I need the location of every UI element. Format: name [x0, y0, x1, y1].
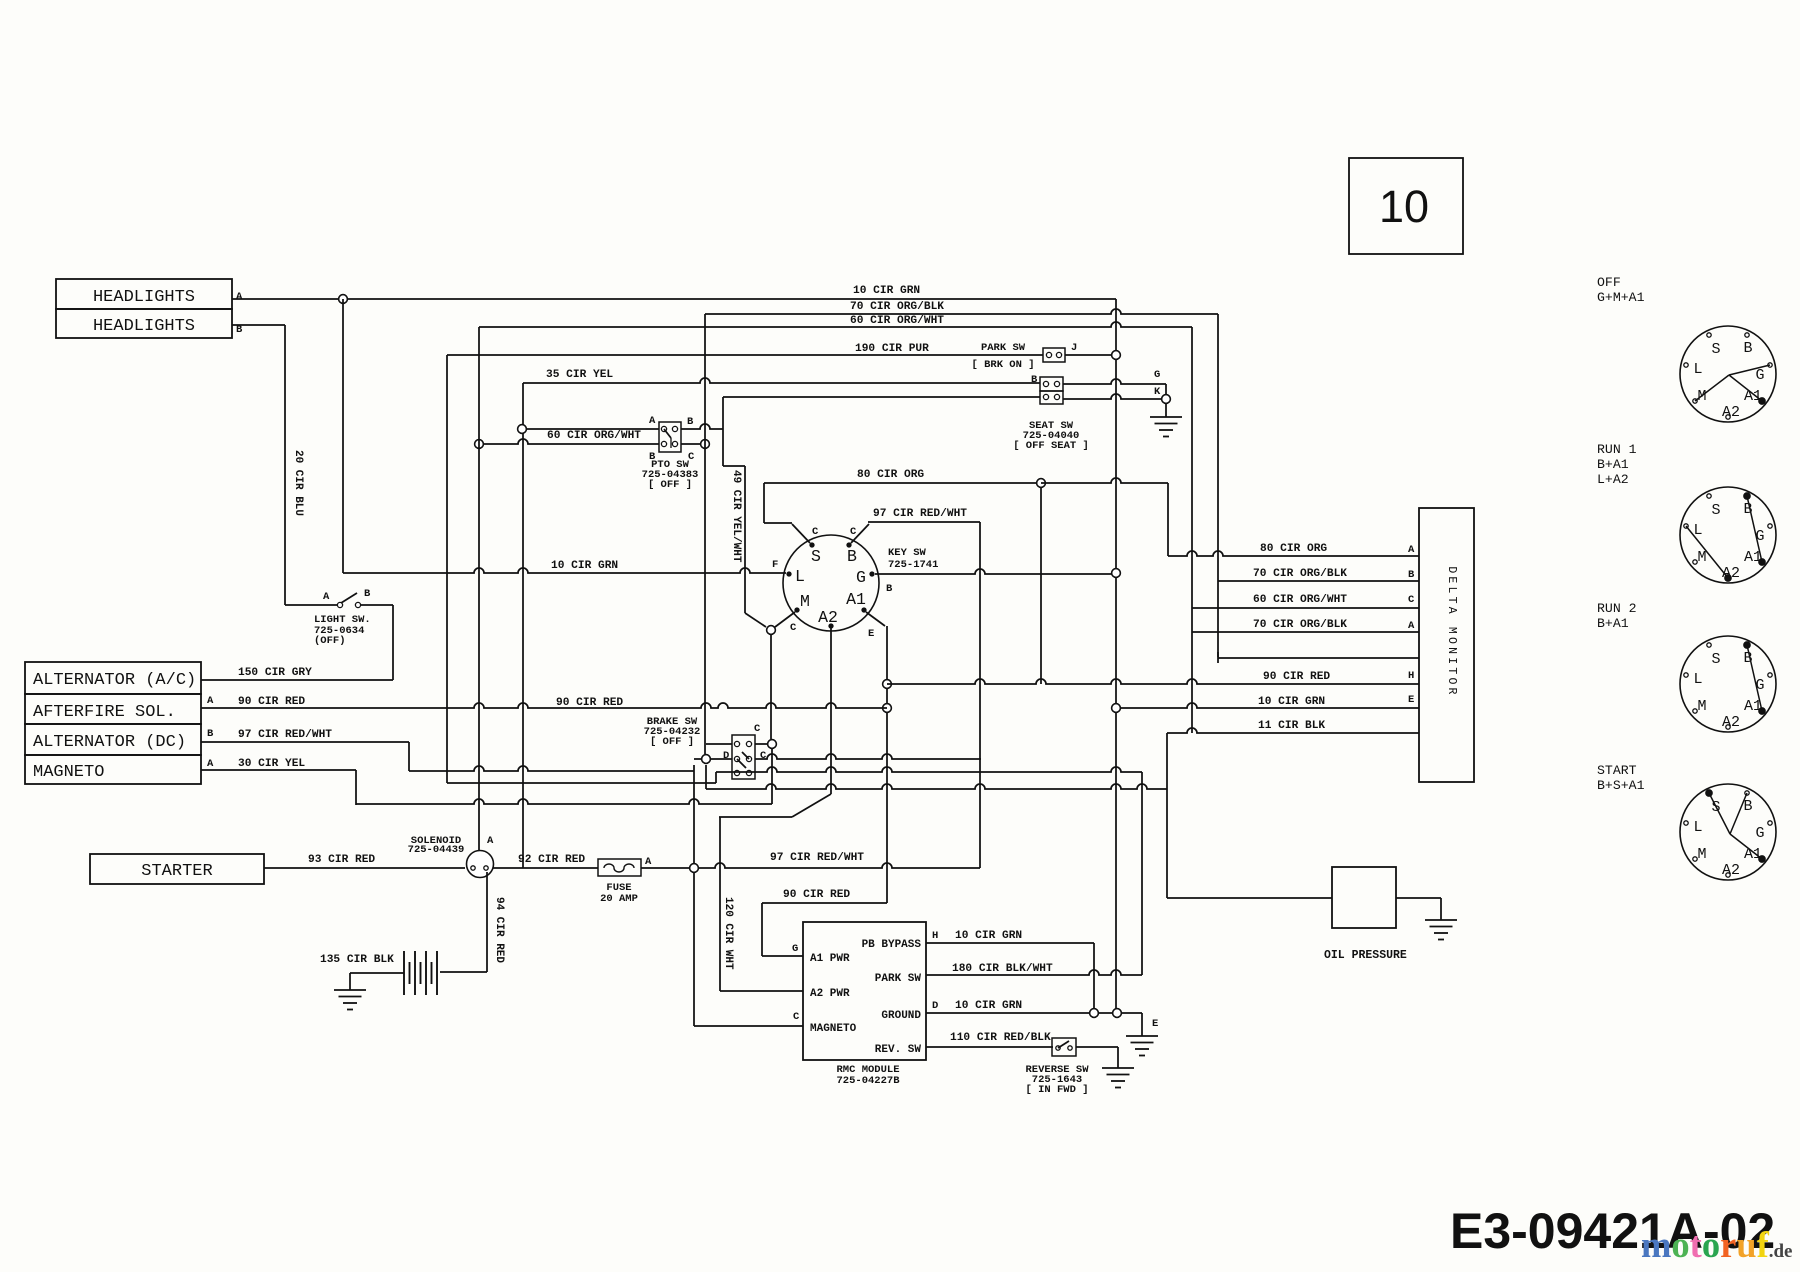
svg-text:B: B	[886, 583, 893, 595]
svg-text:A2: A2	[818, 608, 838, 627]
node trunk ground	[1113, 1009, 1122, 1018]
svg-text:C: C	[812, 526, 819, 538]
svg-text:C: C	[760, 750, 767, 762]
svg-text:90 CIR RED: 90 CIR RED	[1263, 671, 1330, 683]
svg-text:HEADLIGHTS: HEADLIGHTS	[93, 288, 195, 307]
svg-text:135 CIR BLK: 135 CIR BLK	[320, 954, 394, 966]
key pin G	[870, 572, 874, 576]
node 90 RED	[883, 704, 892, 713]
svg-text:93 CIR RED: 93 CIR RED	[308, 854, 375, 866]
key pin M	[795, 608, 799, 612]
svg-text:L: L	[1693, 671, 1702, 688]
svg-text:ALTERNATOR (DC): ALTERNATOR (DC)	[33, 733, 186, 752]
wire magneto vertical upper	[693, 765, 695, 864]
key pin A2	[829, 624, 833, 628]
node key M	[767, 626, 776, 635]
svg-text:A: A	[645, 856, 652, 868]
svg-text:L+A2: L+A2	[1597, 472, 1629, 487]
svg-text:97 CIR RED/WHT: 97 CIR RED/WHT	[238, 729, 332, 741]
svg-text:G: G	[1755, 367, 1764, 384]
svg-text:A: A	[207, 695, 214, 707]
wire key A2 down	[830, 628, 832, 794]
svg-text:G+M+A1: G+M+A1	[1597, 290, 1645, 305]
ignition diagram RUN 1	[1680, 487, 1776, 583]
svg-text:F: F	[772, 559, 778, 571]
svg-text:30 CIR YEL: 30 CIR YEL	[238, 758, 305, 770]
svg-text:OFF: OFF	[1597, 275, 1621, 290]
wire key M to node C	[775, 612, 795, 627]
svg-text:G: G	[1154, 369, 1160, 381]
svg-text:A: A	[207, 758, 214, 770]
svg-text:70 CIR ORG/BLK: 70 CIR ORG/BLK	[850, 301, 944, 313]
node D	[702, 755, 711, 764]
svg-text:70 CIR ORG/BLK: 70 CIR ORG/BLK	[1253, 568, 1347, 580]
svg-text:A1: A1	[1744, 388, 1762, 405]
wire brake C top to node	[755, 743, 767, 745]
svg-text:A: A	[649, 415, 656, 427]
svg-text:A: A	[487, 835, 494, 847]
fuse 20 AMP	[598, 859, 641, 876]
svg-text:10: 10	[1379, 181, 1429, 232]
svg-text:190 CIR PUR: 190 CIR PUR	[855, 343, 929, 355]
svg-text:B: B	[687, 416, 694, 428]
wire 20 CIR BLU	[232, 324, 285, 326]
svg-text:D: D	[932, 1000, 938, 1012]
svg-text:L: L	[1693, 361, 1702, 378]
alternator AC box	[25, 662, 201, 694]
ignition diagram RUN 2	[1680, 636, 1776, 732]
node 35YEL/PTOA	[518, 425, 527, 434]
svg-text:B: B	[1031, 374, 1038, 386]
key pin A1	[862, 608, 866, 612]
wire key A1 to E vertical	[866, 612, 885, 626]
svg-text:RUN 1: RUN 1	[1597, 442, 1637, 457]
wire seat to G	[1063, 379, 1166, 384]
node PTO C	[701, 440, 710, 449]
svg-text:L: L	[795, 567, 805, 586]
svg-text:A1: A1	[846, 590, 866, 609]
afterfire solenoid box	[25, 694, 201, 724]
svg-text:H: H	[1408, 670, 1414, 682]
svg-text:C: C	[688, 451, 695, 463]
node PB ground	[1090, 1009, 1099, 1018]
svg-text:120 CIR WHT: 120 CIR WHT	[722, 897, 734, 970]
svg-text:B: B	[649, 451, 656, 463]
svg-text:725-04227B: 725-04227B	[836, 1075, 900, 1087]
svg-text:B+S+A1: B+S+A1	[1597, 778, 1645, 793]
svg-text:M: M	[1697, 846, 1706, 863]
svg-text:G: G	[1755, 677, 1764, 694]
headlights box B	[56, 309, 232, 338]
svg-text:10 CIR GRN: 10 CIR GRN	[551, 560, 618, 572]
ground battery	[349, 973, 351, 990]
svg-text:C: C	[793, 1011, 800, 1023]
svg-text:A2: A2	[1722, 862, 1740, 879]
svg-text:[ BRK ON ]: [ BRK ON ]	[971, 359, 1034, 371]
wire 60 CIR ORG/WHT vertical	[1191, 327, 1193, 733]
wire 11 CIR BLK horizontal low	[706, 784, 1167, 789]
svg-text:M: M	[800, 592, 810, 611]
svg-text:L: L	[1693, 522, 1702, 539]
svg-text:10 CIR GRN: 10 CIR GRN	[955, 1000, 1022, 1012]
svg-text:10 CIR GRN: 10 CIR GRN	[853, 285, 920, 297]
svg-text:G: G	[792, 943, 798, 955]
svg-text:STARTER: STARTER	[141, 862, 212, 881]
svg-text:ALTERNATOR (A/C): ALTERNATOR (A/C)	[33, 671, 196, 690]
svg-text:97 CIR RED/WHT: 97 CIR RED/WHT	[770, 852, 864, 864]
svg-text:49 CIR YEL/WHT: 49 CIR YEL/WHT	[730, 470, 742, 563]
starter box	[90, 854, 264, 884]
svg-text:[ IN FWD ]: [ IN FWD ]	[1025, 1084, 1088, 1096]
wire unlabeled to delta	[1218, 657, 1419, 659]
svg-text:[ OFF SEAT ]: [ OFF SEAT ]	[1013, 440, 1089, 452]
svg-text:[ OFF ]: [ OFF ]	[650, 736, 694, 748]
svg-text:D: D	[723, 750, 729, 762]
svg-text:110 CIR RED/BLK: 110 CIR RED/BLK	[950, 1032, 1051, 1044]
svg-text:A2 PWR: A2 PWR	[810, 988, 850, 1000]
svg-text:B: B	[1743, 650, 1752, 667]
svg-text:B: B	[1743, 340, 1752, 357]
wire 60 CIR ORG vertical to solenoid	[478, 327, 480, 855]
svg-text:S: S	[811, 547, 821, 566]
wire PTO C to node	[681, 443, 700, 445]
light switch 725-0634	[285, 604, 337, 606]
svg-text:G: G	[1755, 528, 1764, 545]
svg-text:92 CIR RED: 92 CIR RED	[518, 854, 585, 866]
svg-text:H: H	[932, 930, 938, 942]
wire PTO B down to key M node	[723, 465, 745, 467]
headlights box A	[56, 279, 232, 309]
svg-text:A2: A2	[1722, 404, 1740, 421]
svg-text:80 CIR ORG: 80 CIR ORG	[1260, 543, 1327, 555]
svg-text:A1: A1	[1744, 698, 1762, 715]
svg-text:B: B	[1408, 569, 1415, 581]
svg-text:A2: A2	[1722, 565, 1740, 582]
svg-text:90 CIR RED: 90 CIR RED	[783, 889, 850, 901]
svg-text:B: B	[364, 588, 371, 600]
svg-text:A: A	[1408, 620, 1415, 632]
svg-text:C: C	[790, 622, 797, 634]
svg-text:725-1741: 725-1741	[888, 559, 938, 571]
svg-text:20 CIR BLU: 20 CIR BLU	[292, 450, 304, 516]
svg-text:G: G	[1755, 825, 1764, 842]
svg-text:(OFF): (OFF)	[314, 635, 346, 647]
svg-text:[ OFF ]: [ OFF ]	[648, 479, 692, 491]
key pin B	[847, 543, 851, 547]
wire 190 CIR PUR vertical	[446, 355, 448, 783]
svg-text:KEY SW: KEY SW	[888, 547, 927, 559]
page number box 10	[1349, 158, 1463, 254]
key pin L	[787, 572, 791, 576]
reverse switch 725-1643	[1052, 1038, 1076, 1056]
delta monitor box	[1419, 508, 1474, 782]
wire 70 ORG/BLK branch vertical	[704, 314, 706, 754]
svg-text:S: S	[1711, 502, 1720, 519]
svg-text:180 CIR BLK/WHT: 180 CIR BLK/WHT	[952, 963, 1053, 975]
svg-text:94 CIR RED: 94 CIR RED	[493, 897, 505, 963]
svg-text:A: A	[323, 591, 330, 603]
svg-text:10 CIR GRN: 10 CIR GRN	[955, 930, 1022, 942]
wire seat lower to PTO	[723, 396, 1040, 398]
svg-text:PARK SW: PARK SW	[875, 973, 922, 985]
wire key G east	[875, 569, 1116, 574]
node G wire	[1112, 569, 1121, 578]
svg-text:PARK SW: PARK SW	[981, 342, 1026, 354]
svg-text:E: E	[1408, 694, 1414, 706]
magneto box	[25, 755, 201, 784]
key pin S	[810, 543, 814, 547]
svg-text:90 CIR RED: 90 CIR RED	[238, 696, 305, 708]
svg-text:S: S	[1711, 341, 1720, 358]
svg-text:MAGNETO: MAGNETO	[810, 1023, 857, 1035]
svg-text:E: E	[1152, 1018, 1158, 1030]
node J	[1112, 351, 1121, 360]
wire PTO B right	[681, 424, 723, 429]
svg-text:A1: A1	[1744, 846, 1762, 863]
svg-text:A: A	[236, 291, 243, 303]
svg-text:A2: A2	[1722, 714, 1740, 731]
node E wire	[1112, 704, 1121, 713]
svg-text:A1: A1	[1744, 549, 1762, 566]
svg-text:S: S	[1711, 651, 1720, 668]
svg-text:B: B	[1743, 501, 1752, 518]
svg-text:725-04439: 725-04439	[408, 844, 465, 856]
svg-text:A: A	[1408, 544, 1415, 556]
node K	[1162, 395, 1171, 404]
wire 70 CIR ORG/BLK vertical	[1217, 314, 1219, 657]
svg-text:PB BYPASS: PB BYPASS	[862, 939, 922, 951]
wire brake lower row to park sw	[716, 767, 1142, 772]
key switch 725-1741	[783, 535, 879, 631]
node H wire	[883, 680, 892, 689]
node headlights A junction	[339, 295, 348, 304]
svg-text:J: J	[1071, 342, 1077, 354]
svg-text:HEADLIGHTS: HEADLIGHTS	[93, 317, 195, 336]
wire brake C mid east	[755, 754, 981, 759]
ground oil pressure	[1440, 898, 1442, 920]
svg-text:C: C	[754, 723, 761, 735]
svg-text:80 CIR ORG: 80 CIR ORG	[857, 469, 924, 481]
svg-text:C: C	[1408, 594, 1415, 606]
wire 10 CIR GRN trunk vertical	[1115, 299, 1117, 1013]
svg-text:OIL PRESSURE: OIL PRESSURE	[1324, 949, 1407, 962]
svg-text:60 CIR ORG/WHT: 60 CIR ORG/WHT	[850, 315, 944, 327]
svg-text:B: B	[1743, 798, 1752, 815]
svg-text:20 AMP: 20 AMP	[600, 893, 638, 905]
svg-text:C: C	[850, 526, 857, 538]
svg-text:10 CIR GRN: 10 CIR GRN	[1258, 696, 1325, 708]
svg-text:B+A1: B+A1	[1597, 616, 1629, 631]
ignition diagram OFF	[1680, 326, 1776, 422]
svg-text:REV. SW: REV. SW	[875, 1044, 922, 1056]
wire magneto to RMC	[693, 873, 695, 1026]
wire 60 CIR ORG/WHT to PTO A	[522, 428, 659, 430]
svg-text:S: S	[1711, 799, 1720, 816]
svg-text:97 CIR RED/WHT: 97 CIR RED/WHT	[873, 508, 967, 520]
node 60ORG	[475, 440, 484, 449]
svg-text:G: G	[856, 568, 866, 587]
svg-text:L: L	[1693, 819, 1702, 836]
svg-text:B: B	[847, 547, 857, 566]
svg-text:RUN 2: RUN 2	[1597, 601, 1637, 616]
node fuse	[690, 864, 699, 873]
svg-text:E: E	[868, 628, 874, 640]
svg-text:M: M	[1697, 698, 1706, 715]
RMC module 725-04227B	[803, 922, 926, 1060]
ground seat switch	[1165, 404, 1167, 417]
svg-text:70 CIR ORG/BLK: 70 CIR ORG/BLK	[1253, 619, 1347, 631]
svg-text:35 CIR YEL: 35 CIR YEL	[546, 369, 613, 381]
ground reverse	[1117, 1047, 1119, 1068]
ground E	[1126, 1035, 1158, 1037]
wire seat to K	[1063, 394, 1161, 399]
wire A2 jog diagonal	[792, 794, 831, 817]
svg-text:GROUND: GROUND	[881, 1010, 921, 1022]
ignition diagram START	[1680, 784, 1776, 880]
svg-text:MAGNETO: MAGNETO	[33, 763, 104, 782]
svg-text:K: K	[1154, 386, 1161, 398]
svg-text:AFTERFIRE SOL.: AFTERFIRE SOL.	[33, 703, 176, 722]
svg-text:60 CIR ORG/WHT: 60 CIR ORG/WHT	[1253, 594, 1347, 606]
svg-text:START: START	[1597, 763, 1637, 778]
alternator DC box	[25, 724, 201, 755]
svg-text:A1 PWR: A1 PWR	[810, 953, 850, 965]
svg-text:M: M	[1697, 549, 1706, 566]
svg-text:60 CIR ORG/WHT: 60 CIR ORG/WHT	[547, 430, 641, 442]
oil pressure box	[1332, 867, 1396, 928]
node 80 ORG	[1037, 479, 1046, 488]
svg-text:150 CIR GRY: 150 CIR GRY	[238, 667, 312, 679]
svg-text:DELTA MONITOR: DELTA MONITOR	[1445, 566, 1458, 697]
svg-text:M: M	[1697, 388, 1706, 405]
node brake C	[768, 740, 777, 749]
svg-text:B+A1: B+A1	[1597, 457, 1629, 472]
svg-text:B: B	[207, 728, 214, 740]
svg-text:11 CIR BLK: 11 CIR BLK	[1258, 720, 1325, 732]
